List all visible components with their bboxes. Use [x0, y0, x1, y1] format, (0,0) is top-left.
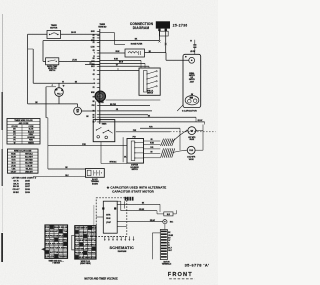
wire left rail B	[28, 49, 34, 83]
svg-text:LT-BU: LT-BU	[91, 46, 95, 48]
wire BLK lower	[33, 175, 86, 177]
wire BK long	[100, 115, 203, 122]
BLK relay box	[157, 210, 176, 216]
schematic plug blob	[125, 197, 134, 201]
svg-text:W-B: W-B	[92, 244, 97, 246]
wire cold valve right lead	[197, 149, 203, 151]
note capacitor usage	[107, 186, 167, 194]
wire to water valves top	[106, 99, 161, 101]
water temp switch WTS	[46, 58, 59, 65]
svg-text:BU-W: BU-W	[71, 32, 76, 34]
svg-text:BU: BU	[93, 58, 95, 60]
svg-text:PK: PK	[93, 87, 95, 89]
schematic bottom pins	[104, 236, 134, 241]
svg-text:N4C: N4C	[92, 252, 97, 255]
wire Y-BK	[100, 114, 148, 116]
svg-text:SCHEMATIC: SCHEMATIC	[110, 246, 135, 250]
terminal block TB2	[86, 169, 105, 178]
svg-text:PUR: PUR	[150, 147, 153, 149]
svg-text:BK: BK	[93, 111, 95, 113]
wire OR-BK schematic	[121, 209, 157, 214]
svg-text:GN-Y: GN-Y	[168, 250, 172, 252]
wire hot valve right lead	[197, 130, 203, 132]
wire PUR shifter to plug	[144, 147, 161, 149]
wire left rail A	[27, 34, 29, 104]
unbalance switch labels	[189, 72, 195, 83]
plug strain relief box	[160, 31, 169, 36]
svg-text:OR-GY: OR-GY	[12, 189, 20, 191]
svg-text:RUN: RUN	[106, 218, 111, 220]
schematic motor inner box M	[102, 201, 117, 233]
wire Y to pressure switch	[100, 69, 139, 71]
timer terminal board TB label	[98, 24, 107, 28]
wire vertical drop to water temp switch	[43, 41, 46, 62]
wire harness connector grid G2	[75, 226, 97, 259]
svg-text:SOLENOID: SOLENOID	[130, 167, 139, 169]
wire GY shifter to plug	[144, 157, 161, 159]
svg-text:35-6778 ‘A’: 35-6778 ‘A’	[185, 262, 210, 267]
svg-text:L1N: L1N	[50, 256, 54, 258]
svg-text:WTR LVL: WTR LVL	[147, 90, 154, 92]
wire motor left vertical	[95, 101, 97, 111]
wire W-BK to pressure switch	[100, 59, 141, 68]
wire push-pull switch bottom lead	[28, 96, 78, 104]
grid 2 label	[80, 261, 91, 265]
svg-text:R: R	[94, 79, 95, 81]
svg-text:W-BK: W-BK	[91, 92, 95, 94]
wire PUR long right	[100, 122, 205, 150]
svg-text:W-BK: W-BK	[13, 192, 19, 194]
noise filter NF	[125, 49, 145, 57]
svg-text:BK-PNK: BK-PNK	[110, 104, 117, 106]
svg-text:FRONT: FRONT	[168, 272, 193, 278]
svg-text:TERM BD: TERM BD	[98, 27, 107, 29]
wiring code list	[12, 177, 37, 194]
svg-text:ON: ON	[61, 90, 63, 92]
svg-text:Y: Y	[117, 69, 118, 71]
water level pressure switch PS	[139, 68, 160, 95]
svg-text:DIAGRAM: DIAGRAM	[118, 250, 127, 253]
svg-text:DIAGRAM: DIAGRAM	[133, 26, 150, 30]
timer terminal board TB strip	[91, 29, 100, 124]
svg-text:MOTOR: MOTOR	[163, 261, 170, 263]
svg-text:OR-BK: OR-BK	[139, 209, 145, 211]
wire BK to terminal block	[48, 167, 86, 169]
wire timer motor left lead	[28, 33, 47, 35]
motor plug label	[162, 261, 172, 265]
push-pull switch PPS	[55, 86, 65, 97]
svg-text:SWITCH: SWITCH	[189, 79, 195, 81]
wire BU shifter to plug	[144, 152, 161, 154]
svg-text:L1N: L1N	[63, 227, 67, 229]
svg-text:2938: 2938	[25, 189, 31, 191]
svg-text:BLOCK: BLOCK	[92, 179, 99, 181]
wire pin1 drop	[158, 31, 160, 42]
svg-text:WHITE: WHITE	[28, 142, 34, 144]
wire BK noise filter to lid switch circuit	[145, 51, 167, 53]
svg-text:BK-R: BK-R	[91, 66, 94, 68]
wire W-BK shifter to plug	[144, 143, 161, 145]
timer motor TM label	[50, 25, 58, 29]
wire strip to noise filter jog	[100, 33, 125, 45]
svg-text:CAPACITOR START MOTOR: CAPACITOR START MOTOR	[112, 190, 155, 194]
wire PUR long left	[48, 144, 127, 146]
wire W long line	[33, 81, 95, 83]
power cord plug connector P1 (black)	[156, 21, 170, 31]
schematic left rail	[93, 205, 95, 236]
wire DELAY schematic	[117, 219, 163, 222]
svg-text:NOISE FILTER: NOISE FILTER	[131, 44, 143, 46]
svg-text:PUR: PUR	[92, 105, 95, 107]
svg-text:SWITCH: SWITCH	[147, 93, 153, 95]
svg-text:SWITCH: SWITCH	[131, 169, 138, 171]
svg-text:SELECTOR: SELECTOR	[48, 68, 57, 70]
wire BK schematic	[117, 203, 160, 212]
svg-text:PK: PK	[93, 42, 95, 44]
svg-text:2937: 2937	[25, 186, 31, 188]
wire BU-W timer motor to timer terminal board	[61, 32, 100, 34]
dial switch DS	[74, 107, 82, 115]
svg-text:BU-W: BU-W	[119, 62, 124, 64]
svg-text:WIRE PLUG: WIRE PLUG	[81, 261, 91, 263]
wire LT-BU water temp switch to terminal board	[59, 60, 100, 62]
wire color code table 1	[7, 119, 40, 145]
wire BU-W to pressure switch	[100, 62, 145, 68]
cold water valve solenoid V2	[186, 146, 197, 161]
svg-text:GY: GY	[168, 240, 170, 242]
wire BK main line to connector	[43, 39, 159, 41]
svg-text:BK-R: BK-R	[13, 183, 19, 185]
svg-text:OR: OR	[93, 50, 95, 52]
shifter solenoid labels	[130, 165, 139, 171]
svg-text:BK: BK	[93, 38, 95, 40]
svg-text:BK: BK	[124, 157, 126, 159]
wire PUR dashed to right edge	[116, 130, 216, 132]
svg-text:BK: BK	[93, 101, 95, 103]
wire OR	[100, 109, 152, 111]
FRONT underline dashes	[169, 278, 194, 280]
wire W-BK into noise filter	[100, 51, 125, 53]
wire GY to pressure switch	[100, 65, 149, 69]
label SCHEMATIC	[110, 246, 135, 253]
svg-text:PUR: PUR	[92, 64, 95, 66]
svg-text:PULL: PULL	[57, 94, 61, 96]
svg-text:SWITCH: SWITCH	[189, 75, 195, 77]
svg-text:HOT WTR: HOT WTR	[188, 137, 196, 139]
wire BK dial switch right lead	[82, 111, 96, 122]
svg-text:COLD: COLD	[189, 150, 193, 152]
timer motor TM	[47, 31, 61, 39]
water temp switch WTS label	[47, 65, 57, 72]
svg-text:BK: BK	[93, 114, 95, 116]
svg-text:MTR: MTR	[106, 215, 111, 217]
wire color code table 2	[8, 149, 39, 173]
svg-text:GY-R: GY-R	[13, 180, 19, 182]
motor M1	[95, 91, 105, 104]
svg-text:BU-W: BU-W	[13, 186, 20, 188]
wire start relay to plug	[164, 224, 166, 230]
wire capacitor lead	[177, 105, 183, 111]
wire into unbalance box	[166, 53, 189, 61]
svg-text:★CAPACITOR: ★CAPACITOR	[181, 109, 197, 112]
timer dial connector grid G1	[45, 225, 68, 258]
motor plug MP striped connector	[160, 230, 167, 260]
lid switch LS1	[190, 40, 196, 55]
svg-text:MOTOR AND TIMER VOLTAGE: MOTOR AND TIMER VOLTAGE	[84, 278, 118, 281]
wire plug to hot valve	[172, 131, 186, 142]
wire pin2 drop	[165, 31, 167, 52]
svg-text:GY-R: GY-R	[91, 61, 94, 63]
svg-text:SHIFTER: SHIFTER	[131, 165, 139, 167]
title CONNECTION DIAGRAM	[130, 22, 154, 30]
timer body block T1	[93, 119, 115, 142]
svg-text:W-B: W-B	[79, 253, 84, 255]
svg-text:OR: OR	[150, 139, 152, 141]
terminal block labels	[91, 179, 99, 185]
svg-text:25-2736: 25-2736	[173, 24, 188, 28]
wire timer body down lead	[101, 137, 127, 164]
svg-text:WTR BLK: WTR BLK	[110, 162, 118, 164]
wire dial switch top lead	[77, 104, 79, 107]
svg-text:W-BK: W-BK	[150, 143, 154, 145]
svg-text:R-W: R-W	[83, 228, 87, 230]
svg-text:BU: BU	[168, 237, 170, 239]
svg-text:2936: 2936	[25, 183, 31, 185]
wire to motor plug	[152, 233, 160, 259]
disconnect plug hatch P2	[161, 139, 175, 146]
wire OR shifter to plug	[144, 139, 161, 141]
svg-text:GY: GY	[93, 35, 95, 37]
svg-text:R-W: R-W	[59, 227, 63, 229]
svg-text:LETTER CODE CHART ★: LETTER CODE CHART ★	[12, 177, 37, 180]
node terminal dot	[185, 56, 187, 58]
svg-text:OR: OR	[93, 74, 95, 76]
svg-text:MOTOR: MOTOR	[50, 28, 58, 30]
basket drive assembly	[185, 94, 199, 105]
wire BK-PNK	[100, 104, 150, 106]
wire rail C to tables	[46, 85, 56, 169]
svg-text:2935: 2935	[25, 180, 31, 182]
grid 1 pointer arrow	[41, 248, 44, 251]
start relay terminal	[163, 220, 174, 224]
wire plug to cold valve	[172, 150, 186, 152]
hot water valve solenoid V1	[186, 127, 197, 141]
svg-text:Y: Y	[94, 53, 95, 55]
wire PK stub	[85, 63, 100, 65]
svg-text:(CAP: (CAP	[106, 221, 111, 224]
svg-text:BK-Y: BK-Y	[168, 248, 172, 250]
unbalance switch assembly box U1	[183, 54, 201, 107]
svg-text:BK: BK	[93, 117, 95, 119]
lid switch plunger terminal	[189, 57, 195, 63]
motor plug wire labels	[168, 232, 174, 252]
disconnect plug hatch P3	[161, 148, 175, 157]
page left edge scan line	[1, 14, 4, 262]
shifter solenoid switch box SS	[127, 136, 144, 163]
svg-text:LINE: LINE	[76, 110, 79, 112]
svg-text:W-B: W-B	[59, 244, 64, 246]
svg-text:SWITCH: SWITCH	[49, 70, 56, 72]
grid 1 label	[48, 259, 64, 264]
wire PUR label line	[140, 127, 180, 151]
svg-text:HOT: HOT	[190, 130, 193, 132]
schematic inner wires	[96, 201, 127, 226]
svg-text:COLD WTR: COLD WTR	[187, 157, 196, 159]
wire push-pull switch top lead	[58, 83, 60, 88]
svg-text:GY: GY	[93, 96, 95, 98]
svg-text:W-BK: W-BK	[91, 40, 95, 42]
svg-text:2939: 2939	[25, 192, 31, 194]
svg-text:T2B: T2B	[92, 257, 96, 259]
grid 2 bracket	[72, 235, 75, 250]
svg-text:P-METER: P-METER	[53, 263, 61, 265]
svg-text:GY: GY	[116, 65, 118, 67]
svg-text:LT-BU: LT-BU	[72, 60, 78, 62]
svg-text:LID SW: LID SW	[190, 51, 196, 53]
schematic motor assembly dashed box	[96, 198, 127, 237]
svg-text:BU: BU	[150, 152, 152, 154]
